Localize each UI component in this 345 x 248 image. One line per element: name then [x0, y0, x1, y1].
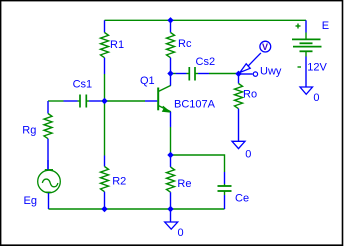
ground battery — [300, 87, 320, 104]
svg-text:0: 0 — [245, 149, 251, 161]
resistor Re — [167, 155, 192, 209]
wire emitter net to Re junction — [170, 127, 172, 155]
transistor Q1 — [140, 74, 216, 128]
svg-text:0: 0 — [178, 227, 184, 239]
wire base net: junction down to R2 — [104, 101, 106, 156]
junction node collector/Rc/Cs2 — [167, 70, 173, 76]
svg-text:12V: 12V — [307, 62, 327, 74]
wire Cs2 right to output node — [209, 73, 237, 75]
svg-text:Rg: Rg — [22, 124, 36, 136]
source Eg — [24, 160, 61, 209]
svg-text:R2: R2 — [112, 175, 126, 187]
junction node emitter/Re/Ce — [167, 152, 173, 158]
resistor Rg — [22, 101, 52, 170]
svg-text:Rc: Rc — [178, 38, 192, 50]
svg-text:Ce: Ce — [235, 193, 249, 205]
wire top rail from R1 to battery — [105, 19, 307, 21]
svg-text:Re: Re — [177, 178, 191, 190]
svg-text:V: V — [262, 42, 268, 52]
svg-text:0: 0 — [313, 92, 319, 104]
svg-text:Uwy: Uwy — [260, 66, 282, 78]
wire Rg top to Cs1 — [48, 100, 64, 102]
wire Ro top from output node — [238, 74, 240, 76]
junction node R2 bottom rail — [101, 206, 107, 212]
resistor R1 — [101, 20, 125, 74]
battery E — [292, 20, 329, 87]
svg-text:E: E — [322, 20, 329, 32]
svg-text:R1: R1 — [110, 39, 124, 51]
ground Re — [165, 209, 184, 239]
svg-text:Q1: Q1 — [140, 75, 155, 87]
junction node output Uwy — [235, 71, 241, 77]
capacitor Cs1 — [64, 78, 102, 107]
svg-text:Cs2: Cs2 — [196, 56, 216, 68]
junction node Re bottom rail — [167, 206, 173, 212]
junction node base (R1/R2/Cs1/base) — [101, 98, 107, 104]
svg-text:Cs1: Cs1 — [73, 78, 93, 90]
ground Ro — [232, 141, 251, 160]
svg-text:BC107A: BC107A — [174, 99, 216, 111]
resistor Ro — [235, 74, 258, 141]
wire base net: R1 bottom to base junction — [104, 74, 106, 101]
resistor Rc — [167, 20, 192, 73]
wire base net: junction to transistor base — [105, 100, 146, 102]
wire Cs1 right to base junction — [101, 100, 105, 102]
wire Re junction to Ce — [171, 155, 225, 172]
resistor R2 — [101, 156, 127, 210]
wire bottom rail — [49, 208, 225, 210]
wire Cs2 left stub from collector junction — [171, 73, 176, 75]
voltmeter V probe — [240, 41, 271, 72]
terminal Uwy — [241, 66, 282, 78]
svg-text:Eg: Eg — [24, 195, 37, 207]
svg-text:Ro: Ro — [243, 88, 257, 100]
capacitor Ce — [218, 172, 250, 209]
junction node top rail / Rc — [167, 17, 173, 23]
capacitor Cs2 — [176, 56, 216, 81]
